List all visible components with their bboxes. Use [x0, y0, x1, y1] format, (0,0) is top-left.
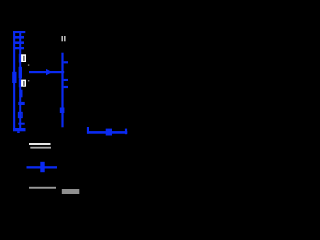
capacitor plate white line 1 [29, 143, 51, 145]
arrowhead [46, 69, 52, 75]
capacitor plate gray line 2 [30, 147, 51, 149]
wire bottom bar [13, 128, 26, 131]
cell plate bar 3 [15, 47, 24, 49]
wire horizontal with arrow [29, 69, 64, 75]
battery cell bottom: horizontal wire [27, 166, 58, 168]
stray dot 1 [28, 64, 29, 65]
right end tick [125, 129, 127, 135]
cell block 2 [19, 90, 22, 98]
tick 3 [64, 86, 68, 88]
cell plate bar 4 [18, 102, 24, 105]
tick 2 [64, 79, 68, 81]
battery stack B1 [12, 31, 25, 133]
component box 3 [19, 113, 22, 118]
center arrow blob [106, 129, 112, 136]
wire top bar [13, 31, 25, 33]
component box 2 [19, 79, 21, 87]
right wire with arrow [87, 127, 127, 136]
fat block on left rail [12, 72, 16, 83]
stray dot 2 [28, 80, 29, 81]
label box L2 [21, 80, 26, 87]
cell block tall [19, 67, 22, 79]
center vertical wire [60, 53, 68, 128]
cell plate bar 1 [15, 36, 24, 39]
component box 1 [19, 54, 21, 63]
gray caption patch [62, 189, 80, 194]
label II marks [61, 36, 65, 41]
chain vertical wire [19, 33, 21, 128]
junction dot [60, 108, 65, 114]
gray underline [29, 187, 56, 189]
cell plate bar 5 [18, 123, 24, 125]
wire left rail [13, 31, 15, 131]
stub below bottom bar [17, 131, 20, 133]
battery cell bottom: fat plate [40, 162, 44, 172]
cell plate bar 2 [15, 41, 24, 44]
label box L1 [21, 54, 26, 62]
left end tick [87, 127, 89, 134]
tick 1 [64, 61, 68, 63]
